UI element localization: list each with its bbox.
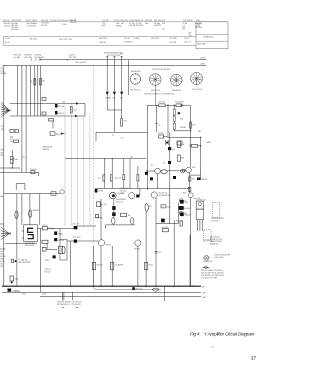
svg-text:TR4 1k: TR4 1k: [106, 245, 112, 247]
svg-text:D6 1k 100n: D6 1k 100n: [215, 257, 224, 259]
svg-text:68p: 68p: [1, 152, 4, 154]
svg-text:150k: 150k: [33, 20, 37, 22]
svg-text:47u 560 R17 T1 VR3: 47u 560 R17 T1 VR3: [201, 277, 217, 279]
svg-text:R68 C23: R68 C23: [176, 220, 183, 222]
svg-text:TR4 VR3 D6: TR4 VR3 D6: [25, 245, 35, 247]
svg-text:D6 R56: D6 R56: [134, 248, 140, 250]
svg-text:47u: 47u: [1, 126, 4, 128]
svg-text:T1: T1: [112, 135, 114, 137]
svg-text:T1 4k7: T1 4k7: [98, 190, 103, 192]
svg-text:R68 1M BZY88: R68 1M BZY88: [18, 262, 30, 264]
svg-text:IN4148: IN4148: [180, 127, 186, 129]
svg-text:+340V: +340V: [206, 142, 212, 144]
svg-text:10k C23 220: 10k C23 220: [192, 89, 202, 91]
svg-text:R68 12k: R68 12k: [43, 149, 50, 151]
svg-text:68p: 68p: [0, 196, 3, 198]
svg-text:220: 220: [162, 23, 165, 25]
svg-text:100n 1k 470k: 100n 1k 470k: [75, 62, 86, 64]
svg-text:IN4148: IN4148: [202, 179, 208, 181]
svg-text:100n 820 1k: 100n 820 1k: [203, 261, 212, 263]
svg-text:33k 470k: 33k 470k: [121, 20, 128, 22]
svg-text:R17: R17: [1, 155, 4, 157]
svg-text:R17: R17: [183, 200, 186, 202]
svg-text:1M 0V22: 1M 0V22: [154, 25, 161, 27]
svg-text:0V22: 0V22: [42, 293, 46, 295]
svg-text:12k C23: 12k C23: [184, 42, 191, 44]
svg-text:33k 470k: 33k 470k: [30, 39, 37, 41]
svg-text:6V8 470k: 6V8 470k: [154, 20, 162, 22]
svg-text:BZY88: BZY88: [1, 73, 7, 75]
svg-text:VR3: VR3: [0, 259, 3, 261]
svg-text:2k2 C23: 2k2 C23: [72, 224, 78, 226]
svg-text:D3: D3: [163, 163, 165, 165]
svg-text:R68 R68: R68 R68: [145, 20, 152, 22]
svg-text:R17 R56: R17 R56: [69, 57, 76, 59]
svg-text:IN4148 R68: IN4148 R68: [12, 20, 22, 22]
svg-text:12k 150k: 12k 150k: [25, 57, 32, 59]
svg-text:220 D6: 220 D6: [42, 225, 48, 227]
svg-text:6V8 IN4148: 6V8 IN4148: [183, 20, 193, 22]
svg-text:Tr1: Tr1: [151, 165, 154, 167]
svg-text:R56: R56: [145, 23, 148, 25]
svg-text:150k: 150k: [73, 109, 77, 111]
svg-text:TR4 10k 150k 33k 820: TR4 10k 150k 33k 820: [152, 69, 170, 71]
svg-text:IN4148 560: IN4148 560: [131, 71, 140, 73]
svg-text:1k R68: 1k R68: [185, 208, 190, 210]
svg-text:+375V: +375V: [200, 58, 206, 60]
svg-text:D6 BZY88: D6 BZY88: [124, 42, 132, 44]
svg-text:12k: 12k: [115, 178, 118, 180]
svg-text:BZY88: BZY88: [56, 134, 62, 136]
svg-text:6V8: 6V8: [162, 20, 165, 22]
svg-text:0V22 R68: 0V22 R68: [95, 217, 103, 219]
svg-text:150k 2k2: 150k 2k2: [99, 42, 106, 44]
svg-text:470: 470: [158, 125, 161, 127]
svg-text:47u IN4148: 47u IN4148: [35, 57, 44, 59]
svg-text:560 33k: 560 33k: [129, 25, 135, 27]
svg-text:33k: 33k: [128, 215, 131, 217]
svg-text:220 10k R17: 220 10k R17: [72, 304, 82, 306]
svg-text:12k C23 T1 560: 12k C23 T1 560: [59, 39, 72, 41]
svg-text:100n: 100n: [62, 24, 66, 26]
svg-text:C23 150k: C23 150k: [169, 38, 177, 40]
svg-text:C23: C23: [102, 22, 105, 24]
svg-text:47u BZY88: 47u BZY88: [115, 265, 124, 267]
svg-text:BZY88 BZY88: BZY88 BZY88: [159, 195, 170, 197]
svg-text:0V22: 0V22: [0, 254, 4, 256]
svg-text:470k: 470k: [183, 193, 187, 195]
svg-text:6V8: 6V8: [102, 25, 105, 27]
svg-text:10k 6V8: 10k 6V8: [12, 290, 18, 292]
svg-text:R56 6V8: R56 6V8: [136, 25, 143, 27]
svg-text:TL2: TL2: [121, 138, 124, 140]
svg-text:T1 68p: T1 68p: [105, 98, 111, 100]
svg-text:IN4148: IN4148: [158, 133, 164, 135]
svg-text:820: 820: [172, 149, 175, 151]
svg-text:150k 12k: 150k 12k: [117, 193, 124, 195]
svg-text:150k: 150k: [167, 206, 171, 208]
svg-text:6V8: 6V8: [182, 28, 185, 30]
svg-text:560 560: 560 560: [58, 240, 64, 242]
svg-text:R47: R47: [192, 179, 195, 181]
svg-text:4k7: 4k7: [149, 206, 152, 208]
svg-text:470k: 470k: [14, 159, 18, 161]
svg-text:2k2 47u: 2k2 47u: [124, 38, 130, 40]
svg-text:R68 820: R68 820: [33, 210, 39, 212]
svg-text:10k: 10k: [119, 177, 122, 179]
svg-text:C23 560: C23 560: [114, 20, 121, 22]
svg-text:0V22: 0V22: [45, 260, 49, 262]
svg-text:10k 1k: 10k 1k: [5, 42, 10, 44]
svg-text:47u: 47u: [162, 28, 165, 30]
svg-text:R17: R17: [0, 266, 3, 268]
svg-text:8k2: 8k2: [181, 158, 184, 160]
svg-text:R56 820: R56 820: [30, 169, 36, 171]
svg-text:1k 220: 1k 220: [101, 204, 106, 206]
svg-text:R17 0V22: R17 0V22: [73, 237, 81, 239]
svg-text:Fig 4 Y Amplifier Circuit D: Fig 4 Y Amplifier Circuit Diagram: [190, 332, 255, 337]
svg-text:100n VR3: 100n VR3: [197, 44, 205, 46]
svg-text:4k7: 4k7: [121, 23, 124, 25]
svg-text:IN4148 10k: IN4148 10k: [210, 244, 219, 246]
svg-text:1k: 1k: [183, 208, 185, 210]
svg-text:D6 0V22: D6 0V22: [162, 227, 169, 229]
svg-text:68p: 68p: [198, 24, 201, 26]
svg-text:560 D6: 560 D6: [58, 113, 64, 115]
svg-text:820 4k7: 820 4k7: [45, 272, 51, 274]
svg-text:0V22: 0V22: [15, 279, 19, 281]
svg-text:+150V: +150V: [199, 63, 205, 65]
svg-text:1k 47u: 1k 47u: [184, 38, 189, 40]
svg-text:10k 1M 12k 1M R17 1k 150k 6V8: 10k 1M 12k 1M R17 1k 150k 6V8 220: [144, 94, 174, 96]
svg-text:470k 100n: 470k 100n: [211, 220, 219, 222]
svg-text:BZY88: BZY88: [116, 25, 122, 27]
svg-text:1M 4k7: 1M 4k7: [0, 256, 5, 258]
svg-text:R56 IN4148 25V: R56 IN4148 25V: [57, 304, 70, 306]
svg-text:470: 470: [124, 121, 127, 123]
svg-text:TR4 4k7: TR4 4k7: [96, 265, 102, 267]
svg-text:12k 0V22: 12k 0V22: [158, 102, 165, 104]
svg-text:680: 680: [198, 131, 201, 133]
svg-text:2k: 2k: [30, 81, 32, 83]
svg-text:1k: 1k: [98, 178, 100, 180]
svg-text:Tr36: Tr36: [192, 167, 196, 169]
svg-text:560 47u: 560 47u: [70, 22, 77, 24]
svg-text:10k: 10k: [112, 98, 115, 100]
svg-text:6k8: 6k8: [180, 119, 183, 121]
svg-text:47u 68p: 47u 68p: [14, 57, 21, 59]
svg-text:2k2 10k: 2k2 10k: [3, 20, 9, 22]
svg-text:27: 27: [251, 356, 257, 361]
svg-text:BZY88 C23: BZY88 C23: [204, 36, 214, 38]
svg-text:0V22 47u: 0V22 47u: [116, 202, 123, 204]
svg-text:1k D6: 1k D6: [0, 261, 4, 263]
svg-text:0V22 R56: 0V22 R56: [151, 38, 159, 40]
svg-text:560 IN4148: 560 IN4148: [175, 102, 184, 104]
svg-text:C23 TR4: C23 TR4: [169, 42, 176, 44]
svg-text:6V8: 6V8: [33, 25, 36, 27]
svg-text:220: 220: [62, 102, 65, 104]
svg-text:IN4148: IN4148: [0, 249, 5, 251]
svg-text:T1 2k2: T1 2k2: [5, 38, 11, 40]
svg-text:1k C23 220 R56: 1k C23 220 R56: [107, 55, 120, 57]
svg-text:4k7 D6: 4k7 D6: [42, 25, 48, 27]
svg-text:560 TR4 47u: 560 TR4 47u: [130, 90, 140, 92]
svg-text:6V8 68p: 6V8 68p: [11, 29, 18, 31]
svg-text:1k 6V8: 1k 6V8: [134, 38, 140, 40]
svg-text:10k: 10k: [10, 141, 13, 143]
svg-text:TR4: TR4: [1, 150, 4, 152]
svg-text:IN4148 1M: IN4148 1M: [172, 90, 181, 92]
svg-text:10k 33k: 10k 33k: [58, 106, 64, 108]
svg-text:4k7: 4k7: [130, 156, 133, 158]
svg-text:R68: R68: [183, 213, 186, 215]
svg-text:100n 1M: 100n 1M: [136, 20, 143, 22]
svg-text:6V8 0V22: 6V8 0V22: [99, 38, 107, 40]
svg-text:560 820: 560 820: [4, 26, 11, 28]
svg-text:T1 1M: T1 1M: [58, 233, 63, 235]
svg-text:820: 820: [1, 129, 4, 131]
svg-text:12k 220: 12k 220: [26, 25, 32, 27]
svg-text:0V22: 0V22: [149, 265, 153, 267]
svg-text:R56: R56: [22, 293, 25, 295]
